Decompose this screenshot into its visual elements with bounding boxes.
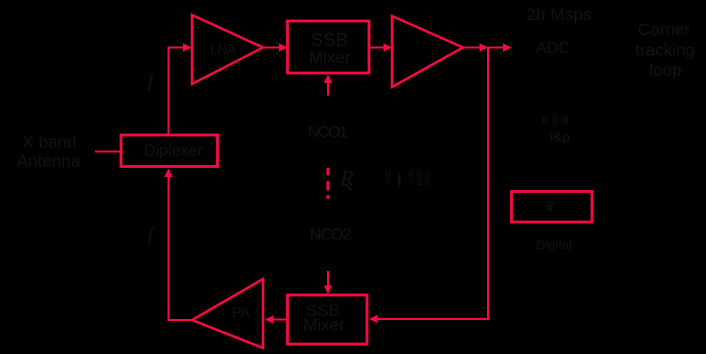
svg-text:749: 749 bbox=[408, 178, 433, 189]
svg-text:tracking: tracking bbox=[635, 41, 695, 60]
svg-text:Mixer: Mixer bbox=[303, 316, 345, 335]
svg-text:2b Msps: 2b Msps bbox=[526, 5, 592, 24]
svg-text:888: 888 bbox=[542, 113, 573, 127]
svg-text:X band: X band bbox=[23, 133, 77, 152]
svg-text:7: 7 bbox=[385, 178, 390, 189]
svg-text:LNA: LNA bbox=[210, 42, 237, 58]
svg-text:loop: loop bbox=[649, 61, 681, 80]
svg-text:SSB: SSB bbox=[311, 30, 349, 50]
svg-text:Digital: Digital bbox=[536, 238, 572, 253]
svg-text:Carrier: Carrier bbox=[638, 20, 690, 39]
svg-text:ADC: ADC bbox=[536, 40, 570, 57]
svg-text:NCO1: NCO1 bbox=[308, 124, 348, 141]
svg-text:Diplexer: Diplexer bbox=[144, 143, 203, 160]
svg-text:i&p: i&p bbox=[550, 129, 570, 145]
svg-text:NCO2: NCO2 bbox=[310, 227, 352, 244]
svg-text:R: R bbox=[339, 166, 354, 191]
svg-text:PA: PA bbox=[232, 304, 250, 320]
svg-text:Mixer: Mixer bbox=[309, 48, 351, 67]
svg-text:Antenna: Antenna bbox=[17, 151, 81, 170]
